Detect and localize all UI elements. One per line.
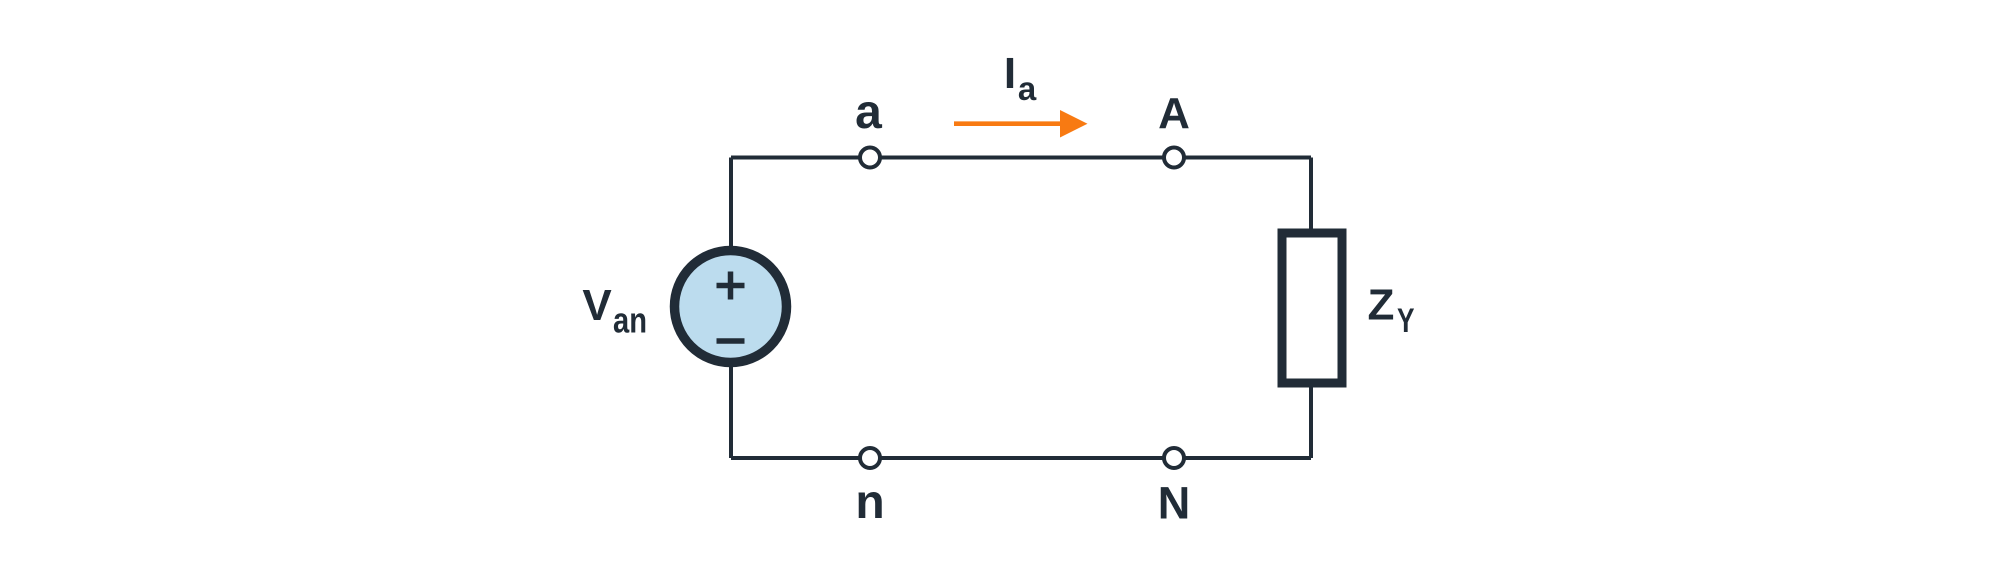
svg-text:Y: Y bbox=[1397, 302, 1415, 340]
plus sign bbox=[717, 272, 745, 300]
wire top (a-A) bbox=[731, 156, 1311, 160]
svg-text:V: V bbox=[582, 281, 612, 330]
wire left vertical bbox=[729, 158, 733, 459]
svg-text:n: n bbox=[855, 476, 884, 529]
node A terminal bbox=[1164, 148, 1184, 168]
current arrow Ia bbox=[954, 121, 1061, 126]
svg-text:a: a bbox=[855, 86, 882, 139]
wire right vertical bbox=[1309, 158, 1313, 459]
minus sign bbox=[717, 338, 745, 344]
voltage source Van circle bbox=[675, 251, 787, 363]
svg-text:Z: Z bbox=[1368, 281, 1395, 330]
svg-text:an: an bbox=[613, 300, 647, 341]
node a terminal bbox=[860, 148, 880, 168]
impedance ZY rectangle bbox=[1282, 233, 1342, 383]
node n terminal bbox=[860, 448, 880, 468]
svg-text:a: a bbox=[1018, 70, 1037, 107]
svg-text:A: A bbox=[1158, 89, 1190, 138]
svg-text:I: I bbox=[1004, 49, 1016, 98]
wire bottom (n-N) bbox=[731, 456, 1311, 460]
node N terminal bbox=[1164, 448, 1184, 468]
svg-text:N: N bbox=[1158, 478, 1191, 529]
